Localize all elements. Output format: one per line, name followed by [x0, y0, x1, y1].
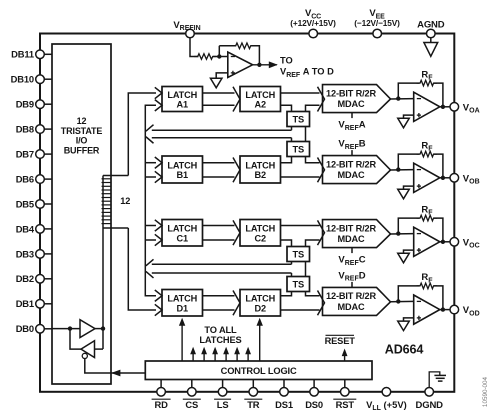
bus arrow into latch A2 [233, 87, 240, 112]
wire feedback RF A right leg [434, 83, 443, 107]
svg-text:RESET: RESET [325, 336, 356, 346]
resistor RF C [417, 215, 438, 221]
svg-text:DB8: DB8 [16, 124, 34, 135]
bus arrow into latch B1 bottom [155, 171, 162, 182]
wire VREFB stub [351, 150, 353, 156]
svg-text:TO: TO [280, 56, 293, 66]
wire op-amp U1 plus to ground [216, 73, 228, 78]
wire readback line A [152, 129, 292, 131]
svg-text:C1: C1 [177, 233, 188, 243]
bus arrow into latch A1 bottom [155, 100, 162, 111]
svg-text:A1: A1 [177, 100, 188, 110]
wire right rail (bus spine) [145, 105, 156, 295]
wire readback line D [152, 272, 292, 274]
bus arrow into latch C1 top [155, 220, 162, 231]
op-amp U1 reference buffer [228, 52, 253, 77]
svg-text:LS: LS [217, 399, 229, 410]
pin DS1 [275, 380, 293, 411]
pin DB7 [16, 149, 52, 160]
pin VREFIN [173, 20, 200, 38]
svg-text:TS: TS [292, 115, 304, 125]
node op-amp C input [396, 231, 400, 235]
ground at op-amp D [398, 321, 410, 331]
svg-text:LATCH: LATCH [245, 224, 275, 234]
bus arrow into MDAC C [318, 220, 325, 245]
svg-text:DB5: DB5 [16, 198, 34, 209]
svg-text:DB1: DB1 [16, 298, 34, 309]
pin RST [333, 380, 356, 411]
svg-text:D2: D2 [255, 303, 266, 313]
resistor reference input [194, 54, 216, 60]
wire feedback RF B right leg [434, 154, 443, 178]
wire latch D1 to D2 pair [203, 296, 235, 310]
wire op-amp D output [440, 309, 450, 311]
wire TS4 to MDAC D [306, 292, 320, 296]
node DB0 input junction [68, 326, 72, 330]
wire read buffer input [95, 348, 104, 350]
node op-amp D output [441, 307, 445, 311]
pin VOC [450, 237, 480, 249]
node reference input [217, 54, 221, 58]
wire TS3 to TS4 (bus tie) [305, 262, 307, 277]
wire into reference op-amp [213, 56, 228, 58]
arrow strobe to latch D1 [179, 318, 185, 361]
digital ground symbol at DGND [429, 372, 446, 388]
wire left rail upper (bus to latch A1) [128, 93, 156, 176]
analog ground symbol at AGND [424, 38, 438, 57]
write buffer triangle (DB0 path) [80, 320, 95, 338]
svg-text:TS: TS [292, 145, 304, 155]
arrow on read enable line [111, 370, 120, 377]
svg-text:MDAC: MDAC [338, 170, 365, 180]
svg-text:LATCH: LATCH [245, 90, 275, 100]
bus arrow into latch D1 bottom [155, 304, 162, 315]
bus arrow into latch C1 bottom [155, 234, 162, 245]
bus arrow into latch A1 top [155, 87, 162, 98]
bus arrow into latch B2 [233, 157, 240, 182]
arrow RESET from control logic [342, 349, 348, 362]
wire VREFD stub [351, 282, 353, 288]
wire TS1 out to readback A [291, 127, 293, 131]
node op-amp C output [441, 240, 445, 244]
wire rail branch to latch B1 bottom [145, 176, 156, 178]
node reference output [257, 63, 261, 67]
svg-text:DS1: DS1 [275, 399, 293, 410]
bus arrow into latch B1 top [155, 157, 162, 168]
wire MDAC D to op-amp [391, 300, 414, 302]
svg-text:DGND: DGND [416, 400, 444, 411]
ground at op-amp B [398, 189, 410, 199]
svg-text:LATCH: LATCH [245, 294, 275, 304]
svg-text:12-BIT R/2R: 12-BIT R/2R [326, 159, 376, 169]
ground at op-amp C [398, 253, 410, 262]
svg-text:DB0: DB0 [16, 323, 34, 334]
svg-text:DB7: DB7 [16, 149, 34, 160]
svg-text:AD664: AD664 [385, 343, 424, 357]
resistor reference feedback [232, 43, 254, 49]
bus arrow into latch D1 top [155, 290, 162, 301]
svg-text:DB10: DB10 [11, 74, 34, 85]
wire DB0 line into write buffer [52, 328, 80, 330]
svg-text:12: 12 [77, 116, 87, 126]
pin DB2 [16, 273, 52, 284]
latch A2 [240, 87, 281, 112]
wire op-amp B output [440, 177, 450, 179]
op-amp C [414, 227, 440, 256]
svg-text:CONTROL LOGIC: CONTROL LOGIC [221, 366, 297, 376]
wire feedback RF D right leg [434, 286, 443, 310]
svg-text:DB11: DB11 [11, 49, 34, 60]
pin DB10 [11, 74, 52, 85]
pin DB0 [16, 323, 52, 334]
pin VLL [366, 388, 407, 413]
wire latch A2 out to MDAC A top [281, 92, 320, 94]
wire feedback RF A left leg [398, 83, 419, 99]
wire internal bus riser [102, 176, 104, 350]
three-state buffer TS2 [287, 142, 310, 157]
wire op-amp C plus input to ground [404, 250, 414, 253]
wire reference feedback left leg [218, 46, 220, 57]
bus arrow left (readback A/B) [146, 125, 154, 144]
wire rail branch to latch C1 top [145, 225, 156, 227]
MDAC D (12-bit R/2R) [323, 287, 391, 315]
wire MDAC B to op-amp [391, 169, 414, 171]
wire op-amp B plus input to ground [404, 186, 414, 189]
wire feedback RF D left leg [398, 286, 419, 302]
wire read enable from control logic [85, 358, 146, 373]
pin VCC [290, 8, 336, 38]
wire readback line C [152, 263, 292, 265]
read buffer triangle (DB0 readback) [81, 341, 95, 358]
pin VOB [450, 173, 480, 185]
wire TS1 to TS2 (bus tie) [305, 127, 307, 142]
svg-text:12-BIT R/2R: 12-BIT R/2R [326, 223, 376, 233]
bus arrow into MDAC A [318, 87, 325, 112]
pin VEE [354, 8, 400, 38]
svg-text:TS: TS [292, 280, 304, 290]
wire TS4 out to readback D [291, 273, 293, 277]
svg-text:RD: RD [154, 399, 168, 410]
latch B2 [240, 156, 281, 183]
latch A1 [162, 87, 203, 112]
wire op-amp A output [440, 106, 450, 108]
wire VREFA stub [351, 113, 353, 119]
svg-text:I/O: I/O [76, 136, 88, 146]
svg-text:A2: A2 [255, 100, 266, 110]
wire op-amp A plus input to ground [404, 115, 414, 118]
svg-text:LATCH: LATCH [167, 90, 197, 100]
arrows control logic to latches (small) [190, 347, 251, 361]
svg-text:TS: TS [292, 250, 304, 260]
pin LS [214, 380, 231, 411]
svg-text:B2: B2 [255, 170, 266, 180]
svg-text:DB3: DB3 [16, 248, 34, 259]
pin DB1 [16, 298, 52, 309]
three-state buffer TS3 [287, 247, 310, 262]
svg-text:(−12V/−15V): (−12V/−15V) [354, 18, 400, 28]
wire reference feedback right leg [251, 46, 260, 65]
MDAC B (12-bit R/2R) [323, 156, 391, 184]
wire latch A2 out to TS1 [281, 105, 292, 111]
svg-text:DB2: DB2 [16, 273, 34, 284]
svg-text:C2: C2 [255, 233, 266, 243]
svg-text:10590-004: 10590-004 [482, 376, 489, 407]
bus hatch marks (12-bit bus) [102, 179, 112, 224]
node op-amp B output [441, 176, 445, 180]
latch C1 [162, 220, 203, 247]
wire MDAC A to op-amp [391, 98, 414, 100]
bus arrow into MDAC D [318, 290, 325, 315]
resistor RF B [417, 151, 438, 157]
resistor RF A [417, 80, 438, 86]
wire TS1 to MDAC A [306, 105, 320, 111]
tristate enable bubble on read buffer [82, 353, 87, 358]
three-state buffer TS4 [287, 277, 310, 292]
svg-text:DB9: DB9 [16, 99, 34, 110]
node op-amp B input [396, 167, 400, 171]
svg-text:TO ALL: TO ALL [204, 325, 237, 335]
wire feedback RF C left leg [398, 218, 419, 234]
wire left rail lower (bus to latch D1) [128, 228, 156, 310]
pin DGND [416, 388, 444, 412]
outer frame of AD664 block [40, 34, 454, 392]
resistor RF D [417, 283, 438, 289]
label TO VREF A TO D [280, 56, 334, 79]
svg-text:LATCH: LATCH [167, 224, 197, 234]
wire latch C2 out to MDAC C top [281, 225, 320, 227]
node op-amp A output [441, 105, 445, 109]
svg-text:TR: TR [247, 399, 260, 410]
svg-text:CS: CS [185, 399, 198, 410]
wire read buffer output loop [70, 329, 81, 350]
pin AGND [417, 20, 445, 38]
wire feedback RF B left leg [398, 154, 419, 170]
latch D1 [162, 290, 203, 317]
bus arrow into MDAC B [318, 157, 325, 182]
svg-text:LATCH: LATCH [245, 160, 275, 170]
wire op-amp C output [440, 241, 450, 243]
tristate I/O buffer block [52, 44, 111, 384]
op-amp B [414, 163, 440, 192]
wire VREFIN down [190, 38, 199, 57]
wire op-amp D plus input to ground [404, 318, 414, 321]
bus arrow into latch C2 [233, 220, 240, 245]
pin DB8 [16, 124, 52, 135]
node op-amp A input [396, 96, 400, 100]
pin DB11 [11, 49, 52, 60]
pin VOD [450, 305, 480, 317]
svg-text:12-BIT R/2R: 12-BIT R/2R [326, 88, 376, 98]
pin CS [183, 380, 201, 411]
svg-text:B1: B1 [177, 170, 188, 180]
wire latch B2 out to MDAC B bottom [281, 176, 320, 178]
ground at reference op-amp [210, 78, 222, 88]
pin RD [152, 380, 171, 411]
bus arrow into latch D2 [233, 290, 240, 315]
wire MDAC C to op-amp [391, 233, 414, 235]
label TO ALL LATCHES [199, 325, 241, 345]
wire latch C1 to C2 pair [203, 226, 235, 241]
svg-text:LATCH: LATCH [167, 160, 197, 170]
latch B1 [162, 156, 203, 183]
svg-text:DS0: DS0 [305, 399, 323, 410]
svg-text:RST: RST [336, 399, 355, 410]
op-amp D [414, 295, 440, 324]
arrow strobe to latch D2 [257, 318, 263, 361]
wire TS3 to MDAC C [306, 240, 320, 247]
svg-text:MDAC: MDAC [338, 302, 365, 312]
svg-text:AGND: AGND [417, 20, 445, 31]
wire VREFC stub [351, 248, 353, 254]
svg-text:D1: D1 [177, 303, 188, 313]
svg-text:MDAC: MDAC [338, 99, 365, 109]
MDAC C (12-bit R/2R) [323, 220, 391, 248]
wire reference feedback to resistor [219, 45, 235, 47]
bus arrow left (readback C/D) [146, 259, 154, 278]
svg-text:12: 12 [120, 196, 130, 206]
ground at op-amp A [398, 118, 410, 128]
wire latch B2 out to TS2 [281, 157, 292, 163]
pin DB9 [16, 99, 52, 110]
pin DB3 [16, 248, 52, 259]
svg-text:(+12V/+15V): (+12V/+15V) [290, 18, 336, 28]
MDAC A (12-bit R/2R) [323, 85, 391, 113]
wire TS2 to MDAC B [306, 157, 320, 163]
wire TS3 out to readback C [291, 262, 293, 265]
svg-text:12-BIT R/2R: 12-BIT R/2R [326, 291, 376, 301]
latch C2 [240, 220, 281, 247]
node write buffer output junction [101, 326, 105, 330]
wire latch B1 to B2 pair [203, 163, 235, 177]
wire rail branch to latch C1 bottom [145, 239, 156, 241]
pin VOA [450, 102, 480, 114]
wire latch D2 out to MDAC D bottom [281, 309, 320, 311]
svg-text:LATCH: LATCH [167, 294, 197, 304]
arrow reference output to VREF A-D [253, 61, 278, 68]
svg-text:DB6: DB6 [16, 174, 34, 185]
wire latch D2 out to TS4 [281, 292, 292, 296]
op-amp A [414, 92, 440, 121]
svg-text:TRISTATE: TRISTATE [61, 126, 103, 136]
node op-amp D input [396, 299, 400, 303]
svg-text:LATCHES: LATCHES [199, 335, 241, 345]
latch D2 [240, 290, 281, 317]
svg-text:MDAC: MDAC [338, 234, 365, 244]
label RESET [325, 335, 356, 346]
wire rail branch to latch B1 top [145, 162, 156, 164]
wire TS2 out to readback B [291, 138, 293, 142]
svg-text:DB4: DB4 [16, 223, 35, 234]
pin DB6 [16, 174, 52, 185]
pin DB4 [16, 223, 52, 234]
wire write buffer output [95, 328, 103, 330]
wire readback line B [152, 137, 292, 139]
wire bus takeoff upper [103, 175, 128, 177]
three-state buffer TS1 [287, 112, 310, 127]
wire latch A1 to A2 pair [203, 93, 235, 105]
pin TR [244, 380, 262, 411]
control logic block [145, 361, 372, 380]
wire latch C2 out to TS3 [281, 240, 292, 247]
wire feedback RF C right leg [434, 218, 443, 242]
svg-text:BUFFER: BUFFER [64, 145, 100, 155]
pin DS0 [305, 380, 323, 411]
pin DB5 [16, 198, 52, 209]
wire bus takeoff lower [103, 227, 128, 229]
